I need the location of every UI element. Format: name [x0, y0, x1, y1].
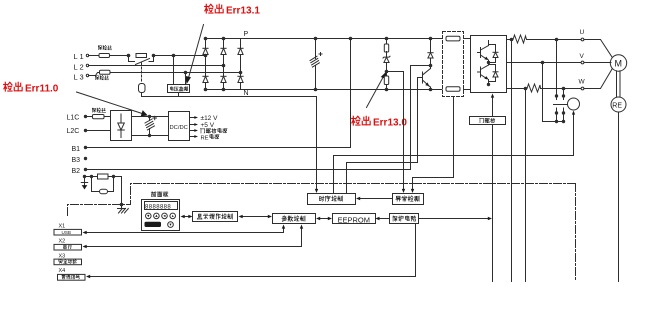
brake transistor Q1 — [418, 66, 432, 91]
gate drive box 门驱动 — [470, 117, 506, 125]
capacitor C2 control — [145, 115, 157, 136]
brake contactor pole 2 — [562, 87, 565, 114]
terminal B1 — [72, 146, 87, 153]
svg-text:X4: X4 — [59, 268, 66, 274]
terminal B3 — [72, 157, 87, 164]
svg-text:P: P — [244, 31, 249, 38]
wire protect to alarm — [90, 224, 416, 277]
motor M — [584, 40, 627, 89]
terminal W — [579, 79, 586, 90]
wire coil control from timing control — [334, 111, 576, 194]
arrow into fault detect 2 — [411, 189, 414, 193]
svg-text:N: N — [244, 90, 249, 97]
output +-12V — [190, 115, 219, 122]
wire rectifier to DCDC top — [132, 116, 169, 118]
voltage divider R lower — [384, 70, 388, 91]
rectifier bridge column 1 — [203, 37, 208, 91]
wire serial to param — [83, 225, 304, 249]
wire contact bottoms to V — [543, 63, 565, 123]
arrow panel to display ctrl — [181, 215, 193, 218]
DCDC converter box — [169, 112, 190, 141]
svg-text:DC/DC: DC/DC — [170, 125, 188, 131]
svg-text:M: M — [615, 58, 623, 68]
terminal U — [580, 29, 585, 41]
arrow gate drive into module — [491, 94, 494, 117]
contactor coil — [568, 98, 580, 110]
parameter control box 参数控制 — [273, 214, 316, 224]
svg-text:B1: B1 — [72, 146, 81, 153]
wire L3 — [89, 73, 100, 76]
svg-text:±12 V: ±12 V — [201, 115, 219, 122]
fuse F1 — [98, 45, 111, 57]
ground earth left — [81, 177, 87, 190]
svg-text:RE: RE — [612, 102, 622, 109]
arrow fault to timing — [356, 197, 393, 200]
wire L3 to bridge — [111, 71, 241, 74]
current sensor dashed box — [443, 32, 471, 97]
IGBT lower with diode — [478, 63, 499, 86]
inverter module U1 — [471, 36, 507, 93]
svg-text:8888888: 8888888 — [145, 204, 171, 210]
output RE power — [190, 134, 220, 141]
relay bypass contact — [129, 56, 154, 84]
wire W output — [507, 87, 582, 90]
annotation Err13.0 — [352, 72, 408, 129]
timing control box 时序控制 — [308, 194, 356, 205]
wire shunt sense to fault detect — [413, 97, 454, 191]
brake contactor pole 1 — [555, 38, 558, 114]
svg-text:L 1: L 1 — [74, 52, 84, 61]
front panel box 前面板 — [142, 192, 180, 231]
connector X4 — [58, 268, 86, 280]
svg-text:X2: X2 — [59, 239, 66, 245]
wire W sense down lower — [525, 122, 527, 282]
wire W sense down — [525, 89, 527, 122]
voltage divider R upper — [384, 37, 388, 52]
rectifier bridge column 2 — [221, 37, 226, 91]
svg-text:U: U — [580, 29, 585, 36]
wire B1 riser to P — [86, 37, 352, 147]
wire N rail — [206, 89, 445, 91]
rectifier bridge column 3 — [238, 39, 243, 90]
connector X2 — [54, 239, 82, 251]
svg-text:L 3: L 3 — [74, 73, 84, 82]
relay coil RV — [139, 84, 146, 97]
IGBT upper with diode — [478, 41, 499, 64]
svg-text:+5 V: +5 V — [201, 122, 215, 129]
arrow display to param — [239, 215, 273, 218]
display control box 显示操作控制 — [193, 212, 238, 222]
terminal L2 — [74, 63, 89, 72]
control rectifier box — [111, 111, 132, 141]
svg-text:L2C: L2C — [67, 128, 80, 135]
svg-text:Err13.0: Err13.0 — [373, 118, 407, 129]
capacitor C1 bus — [310, 37, 322, 91]
panel buttons — [145, 213, 176, 227]
arrow protect to gate line — [419, 217, 493, 220]
wire encoder down — [618, 112, 620, 282]
svg-text:V: V — [580, 53, 585, 60]
reactor U zigzag — [512, 35, 528, 43]
fault detect box 异常检测 — [393, 194, 424, 205]
thermal switch loop — [92, 177, 114, 194]
arrow into timing control — [315, 189, 318, 193]
EEPROM box — [333, 214, 376, 225]
wire divider tap to fault detect — [387, 72, 404, 191]
voltage monitor box 电压监测 — [168, 56, 190, 97]
wire V output — [507, 61, 582, 64]
connector X3 — [54, 254, 82, 265]
svg-text:RE: RE — [201, 135, 209, 141]
svg-text:X1: X1 — [59, 224, 66, 230]
ground chassis right — [118, 177, 129, 214]
resistor R precharge — [136, 54, 147, 58]
wire USB to param — [83, 225, 286, 235]
svg-text:Err11.0: Err11.0 — [25, 84, 59, 95]
wire B2 to brake transistor — [86, 66, 430, 170]
wire relay to timing control — [142, 97, 317, 191]
contactor bar — [554, 104, 569, 106]
svg-text:Err13.1: Err13.1 — [226, 6, 260, 17]
brake freewheel diode — [428, 37, 433, 67]
annotation Err11.0 — [4, 82, 148, 116]
svg-text:B3: B3 — [72, 157, 81, 164]
wire L1 — [89, 55, 100, 57]
terminal L3 — [74, 73, 89, 82]
wire U sense down — [511, 40, 513, 282]
board boundary dash-dot — [68, 184, 576, 282]
zener diode ZD — [383, 52, 390, 72]
wire gate drive down — [492, 125, 494, 282]
svg-text:B2: B2 — [72, 168, 81, 175]
svg-text:EEPROM: EEPROM — [338, 215, 371, 224]
protect circuit box 保护电路 — [390, 214, 419, 224]
output +5V — [190, 122, 215, 129]
external brake resistor loop — [83, 175, 121, 177]
terminal L2C — [67, 128, 111, 135]
svg-text:USB: USB — [62, 230, 71, 235]
output gate drive power — [190, 128, 228, 133]
fuse F2 — [95, 70, 110, 79]
wire L2 — [89, 65, 224, 67]
fuse F3 — [92, 108, 110, 119]
reactor W zigzag — [526, 84, 542, 92]
svg-text:L 2: L 2 — [74, 63, 84, 72]
wire P rail — [206, 38, 445, 40]
wire rectifier to DCDC bottom — [132, 135, 169, 137]
motor shaft — [617, 71, 621, 98]
svg-text:L1C: L1C — [67, 115, 80, 122]
arrow param eeprom — [316, 217, 332, 220]
brake resistor RB — [98, 174, 109, 179]
terminal L1 — [74, 52, 89, 61]
terminal L1C — [67, 115, 93, 122]
wire L1 to bridge — [111, 54, 206, 57]
terminal V — [580, 53, 585, 64]
svg-text:W: W — [579, 79, 586, 86]
connector X1 — [54, 224, 82, 236]
annotation Err13.1 — [185, 4, 261, 84]
arrow into alarm box — [86, 275, 90, 278]
encoder RE — [611, 97, 626, 112]
arrow protect to eeprom — [375, 217, 389, 220]
terminal B2 — [72, 168, 87, 175]
wire brake gate from timing control — [347, 78, 418, 194]
wire U output — [507, 38, 582, 41]
arrow into fault detect — [402, 189, 405, 193]
